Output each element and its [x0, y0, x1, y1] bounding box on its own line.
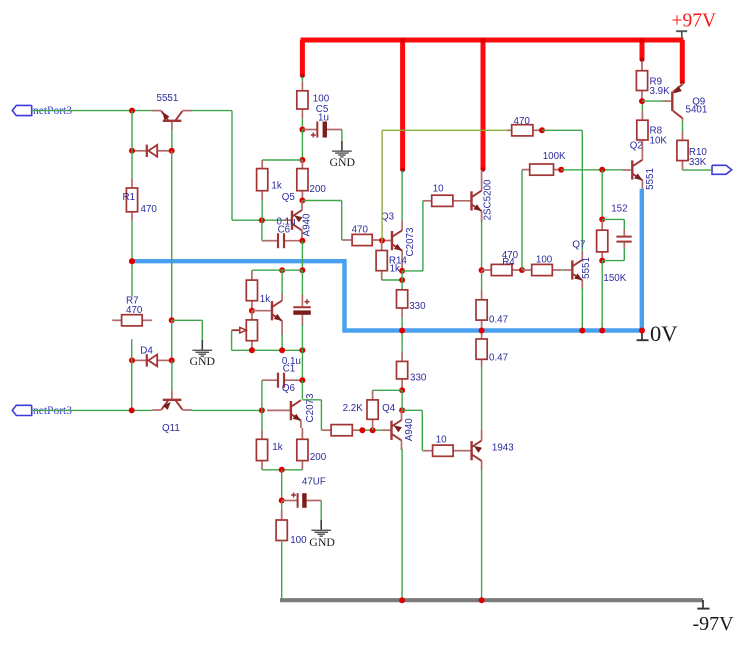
diode D? (upper clamp): [132, 145, 172, 157]
wire 2SC5200 emitter down: [481, 221, 483, 270]
resistor R8 10K: [637, 101, 648, 149]
capacitor C6 0.1u: [262, 233, 303, 248]
ground symbol (left): [193, 340, 213, 356]
transistor Q6 C2073 (NPN driver): [267, 400, 302, 439]
wire bend down to Q5 base row: [231, 111, 233, 221]
svg-text:470: 470: [126, 305, 143, 316]
label A940 (Q5): [301, 213, 312, 236]
label C1: [283, 364, 296, 375]
junction Q3 base: [379, 238, 385, 244]
label A940 (Q4): [404, 418, 415, 441]
transistor 1943 (output PNP): [462, 430, 482, 470]
wire Q6 emitter rail: [262, 469, 302, 471]
resistor R1 470: [126, 151, 137, 261]
junction Q5 emitter node: [299, 198, 305, 204]
wire Vbe block down to C1: [301, 350, 303, 380]
wire 150K column top: [601, 170, 603, 220]
label 47UF: [302, 477, 326, 488]
junction Q4 collector / -97V bus: [399, 597, 405, 603]
junction Q2 base / 150K column: [599, 167, 605, 173]
svg-text:10K: 10K: [650, 135, 668, 146]
resistor 0.47 (upper): [476, 270, 487, 330]
wire top net to Q7 column: [542, 129, 582, 131]
wire 1943 collector to -97V: [481, 469, 483, 600]
net port netPort3 (top input): [12, 105, 31, 115]
transistor Q9 5401 (PNP): [663, 83, 683, 121]
svg-text:33K: 33K: [689, 157, 707, 168]
label GND (C5): [330, 155, 356, 169]
wire Q7 collector column: [581, 130, 583, 252]
wire rail to 1k: [262, 159, 302, 161]
ground symbol (47UF): [311, 520, 331, 536]
label Q9: [692, 96, 705, 107]
label C5 value 1u: [318, 113, 329, 124]
label Q11: [162, 423, 180, 434]
wire Q4 collector to -97V: [401, 449, 403, 600]
resistor 100 (Q6 emitter to -97V): [276, 501, 287, 541]
junction C5 / 100 bottom: [299, 127, 305, 133]
label C6: [278, 224, 291, 235]
label R14: [389, 256, 408, 267]
label 200 (VAS): [310, 184, 327, 195]
svg-text:470: 470: [514, 116, 531, 127]
svg-text:1u: 1u: [318, 113, 329, 124]
wire left column lower (stub top): [131, 339, 133, 360]
label Q4: [382, 403, 396, 414]
svg-text:5551: 5551: [581, 257, 592, 279]
transistor Q11 (bottom input PNP): [152, 390, 192, 410]
svg-text:C2073: C2073: [305, 393, 316, 422]
junction diode right: [169, 148, 175, 154]
wire 100K to Q2 base: [561, 169, 622, 171]
svg-text:2.2K: 2.2K: [343, 403, 364, 414]
svg-text:10: 10: [433, 183, 444, 194]
label R7 value 470: [126, 305, 143, 316]
svg-text:152: 152: [611, 203, 627, 214]
capacitor C5 1u (polarized): [302, 122, 342, 138]
wire +97V drop to Q9 emitter: [680, 40, 685, 83]
wire +97V drop to Q3 collector: [400, 40, 405, 171]
junction Q3 emitter / 10 wire: [399, 268, 405, 274]
net port (right output): [712, 165, 732, 174]
label R8: [650, 126, 663, 137]
wire mid column to D4: [171, 320, 173, 360]
label 10 (upper): [433, 183, 444, 194]
label 152: [611, 203, 627, 214]
svg-text:150K: 150K: [603, 273, 626, 284]
wire +97V drop to R9: [640, 40, 645, 61]
junction 150K bottom: [599, 258, 605, 264]
transistor Q4 A940 (PNP driver): [382, 410, 402, 450]
resistor 330 (lower): [397, 331, 408, 391]
resistor 1k (Q6 emitter): [256, 410, 267, 469]
wire to Q4 base: [362, 429, 381, 431]
wire pot wiper down: [231, 330, 233, 350]
label R9: [650, 76, 663, 87]
label R1: [123, 192, 136, 203]
resistor 1k (Vbe multiplier): [246, 270, 257, 311]
0V bus lower segment: [342, 328, 644, 332]
svg-text:10: 10: [436, 435, 447, 446]
junction Q7 emitter / 0V bus: [579, 328, 585, 334]
svg-text:GND: GND: [309, 535, 335, 549]
wire Q11 base up: [171, 360, 173, 390]
wire 152 top link: [602, 218, 624, 220]
wire Q3 base up (feedback net): [381, 130, 383, 240]
label 0.47 (lower): [489, 353, 508, 364]
power rail +97V bus: [301, 38, 684, 43]
junction 330 / 0V bus: [399, 328, 405, 334]
junction 330 lower bottom: [399, 387, 405, 393]
label 1k (Vbe): [260, 294, 270, 305]
junction C1 right: [299, 377, 305, 383]
svg-text:A940: A940: [404, 418, 415, 441]
resistor R14 1k: [376, 241, 387, 281]
svg-text:1k: 1k: [390, 264, 400, 275]
junction C6 right / Q5 collector: [299, 238, 305, 244]
label +97V: [672, 11, 717, 32]
svg-text:Q5: Q5: [282, 192, 296, 203]
resistor 200 (VAS): [297, 160, 308, 201]
resistor 470 (feedback top): [507, 125, 542, 136]
svg-text:+97V: +97V: [672, 11, 717, 32]
svg-text:-97V: -97V: [693, 613, 735, 635]
wire to Q3 emitter node: [402, 270, 423, 272]
transistor 2SC5200 (output NPN): [453, 170, 482, 222]
label 330 (upper): [409, 301, 426, 312]
resistor 100 (top, +97V): [297, 77, 308, 130]
junction 100K right / Q2 base: [558, 167, 564, 173]
svg-text:47UF: 47UF: [302, 477, 326, 488]
svg-text:100: 100: [290, 535, 307, 546]
net label netPort3 (top): [33, 105, 72, 117]
wire emitter node to 330: [401, 271, 403, 290]
junction Vbe bottom / emitter: [279, 347, 285, 353]
wire 152 bottom link: [602, 260, 624, 262]
wire netPort3 to node A: [32, 110, 153, 112]
label C5: [316, 104, 329, 115]
wire mid column x172: [171, 151, 173, 320]
svg-text:330: 330: [409, 301, 426, 312]
label 470 (top): [514, 116, 531, 127]
junction Q6 base / C1 column: [259, 407, 265, 413]
wire left column to input row: [131, 360, 133, 410]
label 5551 (top-left): [157, 93, 179, 104]
wire Q7 emitter to 0V bus: [581, 288, 583, 331]
wire down to 10 (lower): [421, 410, 423, 450]
junction Q5 base / 1k: [259, 217, 265, 223]
junction +97V / R9 drop: [639, 38, 644, 43]
label Q2: [630, 141, 643, 152]
transistor 5551 (top-left input NPN): [152, 111, 192, 131]
resistor 10 (lower): [422, 445, 461, 456]
junction Vbe bottom / cap: [299, 347, 305, 353]
wire Q3 collector to +97V drop: [401, 171, 403, 222]
label R7: [126, 295, 139, 306]
label 100 (top): [313, 93, 330, 104]
junction Vbe bottom / pot: [249, 347, 255, 353]
label 1943: [492, 443, 514, 454]
0V bus Q2 emitter drop: [640, 189, 644, 331]
label R9 value 3.9K: [650, 86, 671, 97]
svg-text:GND: GND: [330, 155, 356, 169]
resistor 150K: [597, 219, 608, 260]
node A junction (input / R1 column): [129, 108, 135, 114]
label 100 (Q7): [536, 255, 553, 266]
resistor 330 (upper): [397, 290, 408, 331]
label 5401: [686, 104, 708, 115]
junction Q4 emitter node: [399, 407, 405, 413]
0V bus upper segment: [132, 259, 345, 263]
wire Vbe emitter down: [281, 334, 283, 350]
wire R14 bottom right: [382, 279, 402, 281]
svg-text:Q2: Q2: [630, 141, 643, 152]
label Q3: [381, 211, 395, 222]
svg-text:200: 200: [310, 452, 327, 463]
svg-text:3.9K: 3.9K: [650, 86, 671, 97]
wire netPort3 (bottom) to Q11: [32, 409, 153, 411]
junction GND branch: [169, 317, 175, 323]
wire feedback net top: [382, 129, 507, 131]
wire 100 bottom to -97V bus: [281, 541, 283, 601]
net label netPort3 (bottom): [33, 405, 72, 417]
wire to GND (left): [172, 319, 203, 321]
label 5551 (Q7): [581, 257, 592, 279]
junction 1k/200 top rail: [299, 157, 305, 163]
diode D4: [132, 354, 172, 366]
junction Q4 base wire b: [370, 427, 376, 433]
power symbol 0V: [637, 333, 649, 341]
label 1k (Q6): [272, 442, 282, 453]
wire Q6 collector right: [302, 399, 321, 401]
label 100K: [543, 151, 566, 162]
svg-text:1k: 1k: [260, 294, 270, 305]
wire Q6 collector up: [301, 380, 303, 399]
wire R1 column upper: [131, 111, 133, 151]
label Q6: [282, 383, 296, 394]
svg-text:R4: R4: [502, 257, 515, 268]
transistor Q2 5551 (NPN): [623, 149, 643, 189]
label 0.1u (C6): [277, 216, 296, 227]
wire Q5 collector down across 0V: [301, 241, 303, 271]
power symbol +97V: [676, 31, 687, 38]
resistor R9 3.9K: [636, 61, 647, 102]
wire R1 column below bus (stub): [131, 263, 133, 297]
svg-text:C6: C6: [278, 224, 291, 235]
wire R9 node to Q9 base: [642, 100, 663, 102]
svg-text:100: 100: [313, 93, 330, 104]
label D4: [140, 345, 153, 356]
resistor 1k (VAS): [257, 160, 268, 220]
junction Q4 base wire a: [359, 427, 365, 433]
svg-text:470: 470: [141, 204, 158, 215]
junction output node / R4: [479, 267, 485, 273]
wire 5551 collector to bend: [192, 110, 232, 112]
junction R1 bottom / 0V bus start: [129, 258, 135, 264]
resistor R7 470 (floating): [112, 315, 152, 326]
transistor Q3 C2073 (NPN): [382, 221, 402, 271]
Vbe bottom rail: [232, 349, 303, 351]
wire 5551 base down to diode row: [171, 131, 173, 151]
Vbe top rail: [252, 269, 303, 271]
label 470 (Q5-Q3): [352, 224, 369, 235]
label R10: [689, 147, 708, 158]
junction diode left / R1 column: [129, 148, 135, 154]
svg-text:GND: GND: [190, 354, 216, 368]
label 5551 (Q2): [645, 168, 656, 190]
resistor 10 (upper): [423, 195, 453, 206]
label R14 value 1k: [390, 264, 400, 275]
potentiometer (Vbe trim): [232, 311, 258, 351]
junction Vbe rail left x282: [279, 267, 285, 273]
resistor R4 470: [482, 264, 522, 275]
wire Q5 emitter node right: [302, 200, 341, 202]
label R4: [502, 257, 515, 268]
resistor 0.47 (lower): [476, 331, 487, 367]
resistor 100 (Q7 base): [522, 264, 563, 275]
svg-text:1k: 1k: [272, 442, 282, 453]
wire 100K left column: [521, 170, 523, 270]
junction bottom input / left column: [129, 407, 135, 413]
label 100 (bottom): [290, 535, 307, 546]
svg-text:Q3: Q3: [381, 211, 395, 222]
svg-text:100: 100: [536, 255, 553, 266]
junction 1943 collector / -97V bus: [479, 597, 485, 603]
label C2073 (Q3): [405, 227, 416, 256]
svg-text:1k: 1k: [271, 180, 281, 191]
label 0V: [650, 321, 678, 346]
junction Q2 emitter drop / 0V bus corner: [639, 328, 645, 334]
svg-text:2SC5200: 2SC5200: [482, 179, 493, 220]
svg-text:Q11: Q11: [162, 423, 180, 434]
wire +97V drop to R(100): [300, 40, 305, 77]
net port netPort3 (bottom input): [12, 405, 31, 415]
label R10 value 33K: [689, 157, 707, 168]
svg-text:A940: A940: [301, 213, 312, 236]
label C2073 (Q6): [305, 393, 316, 422]
power symbol -97V: [697, 600, 709, 609]
wire +97V drop to 2SC5200 collector: [481, 40, 486, 170]
junction 47UF node: [279, 498, 285, 504]
svg-text:5551: 5551: [645, 168, 656, 190]
wire 47UF to GND drop: [320, 501, 322, 521]
wire 330 node to Q4 emitter: [401, 390, 403, 410]
label Q7: [572, 239, 585, 250]
wire C1 left down: [261, 380, 263, 410]
junction Vbe base node: [249, 308, 255, 314]
junction R4 / 100K column: [519, 267, 525, 273]
svg-text:100K: 100K: [543, 151, 566, 162]
0V bus vertical segment: [342, 259, 346, 331]
resistor 100K: [522, 164, 561, 175]
wire 100 to 1k/200 rail: [301, 130, 303, 161]
svg-text:1943: 1943: [492, 443, 514, 454]
svg-text:0.47: 0.47: [489, 314, 508, 325]
thick wire end tips: [300, 58, 684, 172]
junction +97V / Q3 drop: [400, 38, 405, 43]
label Q5: [282, 192, 296, 203]
svg-text:0.47: 0.47: [489, 353, 508, 364]
junction emitter rail / 47UF column: [279, 467, 285, 473]
wire down to Q4 base row: [320, 400, 322, 430]
junction Vbe rail right x302: [299, 267, 305, 273]
capacitor 47UF (polarized): [282, 493, 322, 508]
resistor 2.2K: [367, 390, 378, 430]
junction R14 / 330 node: [399, 277, 405, 283]
label 0.47 (upper): [489, 314, 508, 325]
svg-text:Q4: Q4: [382, 403, 396, 414]
label 2SC5200: [482, 179, 493, 220]
transistor Vbe multiplier (NPN): [252, 293, 282, 335]
wire GND drop (left): [201, 320, 203, 340]
wire 10 upper left drop: [422, 201, 424, 271]
label 470 (R4): [502, 250, 519, 261]
label 1k (VAS): [271, 180, 281, 191]
svg-text:C2073: C2073: [405, 227, 416, 256]
svg-text:Q7: Q7: [572, 239, 585, 250]
junction R9 / R8 / Q9 base: [639, 98, 645, 104]
label 200 (Q6): [310, 452, 327, 463]
junction 0V bus start / R1 column: [129, 258, 135, 264]
svg-text:5551: 5551: [157, 93, 179, 104]
junction 470 / Q7 collector net: [539, 127, 545, 133]
svg-text:330: 330: [410, 373, 427, 384]
svg-text:Q6: Q6: [282, 383, 296, 394]
resistor (Q6 to Q4 base): [321, 425, 362, 436]
svg-text:5401: 5401: [686, 104, 708, 115]
junction 150K column / 0V bus: [599, 328, 605, 334]
svg-text:470: 470: [352, 224, 369, 235]
capacitor 152: [616, 219, 631, 260]
svg-text:0V: 0V: [650, 321, 678, 346]
-97V bus: [280, 598, 703, 602]
label GND (left): [190, 354, 216, 368]
capacitor C1 0.1u: [262, 373, 303, 388]
wire to Q5 base: [232, 219, 284, 221]
svg-text:D4: D4: [140, 345, 153, 356]
label 330 (lower): [410, 373, 427, 384]
wire C5 to GND: [341, 130, 343, 141]
resistor 470 (Q5 to Q3): [342, 234, 382, 245]
wire Vbe collector up: [281, 270, 283, 294]
label 10 (lower): [436, 435, 447, 446]
junction 0.47 / 0V bus: [479, 328, 485, 334]
wire 330 to 2.2K: [373, 389, 403, 391]
capacitor electrolytic (Vbe bypass): [293, 270, 311, 350]
wire 1k bottom to C6 left: [261, 220, 263, 241]
label 2.2K: [343, 403, 364, 414]
ground symbol (C5): [332, 141, 352, 157]
svg-text:R1: R1: [123, 192, 136, 203]
junction +97V / 2SC5200 drop: [480, 38, 485, 43]
label GND (47UF): [309, 535, 335, 549]
label 0.1u (C1): [282, 356, 301, 367]
svg-text:200: 200: [310, 184, 327, 195]
resistor 200 (Q6 emitter): [297, 439, 308, 470]
label R1 value 470: [141, 204, 158, 215]
junction D4 left: [129, 357, 135, 363]
svg-text:C1: C1: [283, 364, 296, 375]
label 150K: [603, 273, 626, 284]
transistor Q7 5551 (NPN): [563, 251, 582, 289]
resistor R10 33K: [677, 121, 688, 170]
wire 0.47 lower to 1943 emitter: [481, 366, 483, 430]
label R8 value 10K: [650, 135, 668, 146]
wire Q4 emitter wire right: [402, 409, 422, 411]
wire down to 47UF node: [281, 470, 283, 501]
wire 150K bottom to 0V bus: [601, 261, 603, 331]
transistor Q5 A940 (PNP): [284, 201, 303, 241]
